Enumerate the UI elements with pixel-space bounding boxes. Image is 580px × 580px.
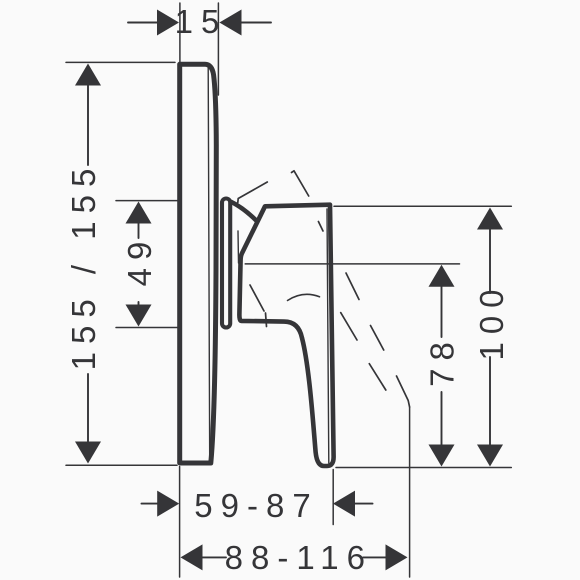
- svg-text:155 / 155: 155 / 155: [65, 161, 102, 371]
- svg-text:59-87: 59-87: [194, 487, 318, 524]
- svg-text:78: 78: [424, 334, 461, 387]
- svg-text:88-116: 88-116: [225, 539, 373, 576]
- svg-text:100: 100: [473, 281, 510, 360]
- svg-text:15: 15: [175, 3, 228, 40]
- svg-text:49: 49: [121, 234, 158, 287]
